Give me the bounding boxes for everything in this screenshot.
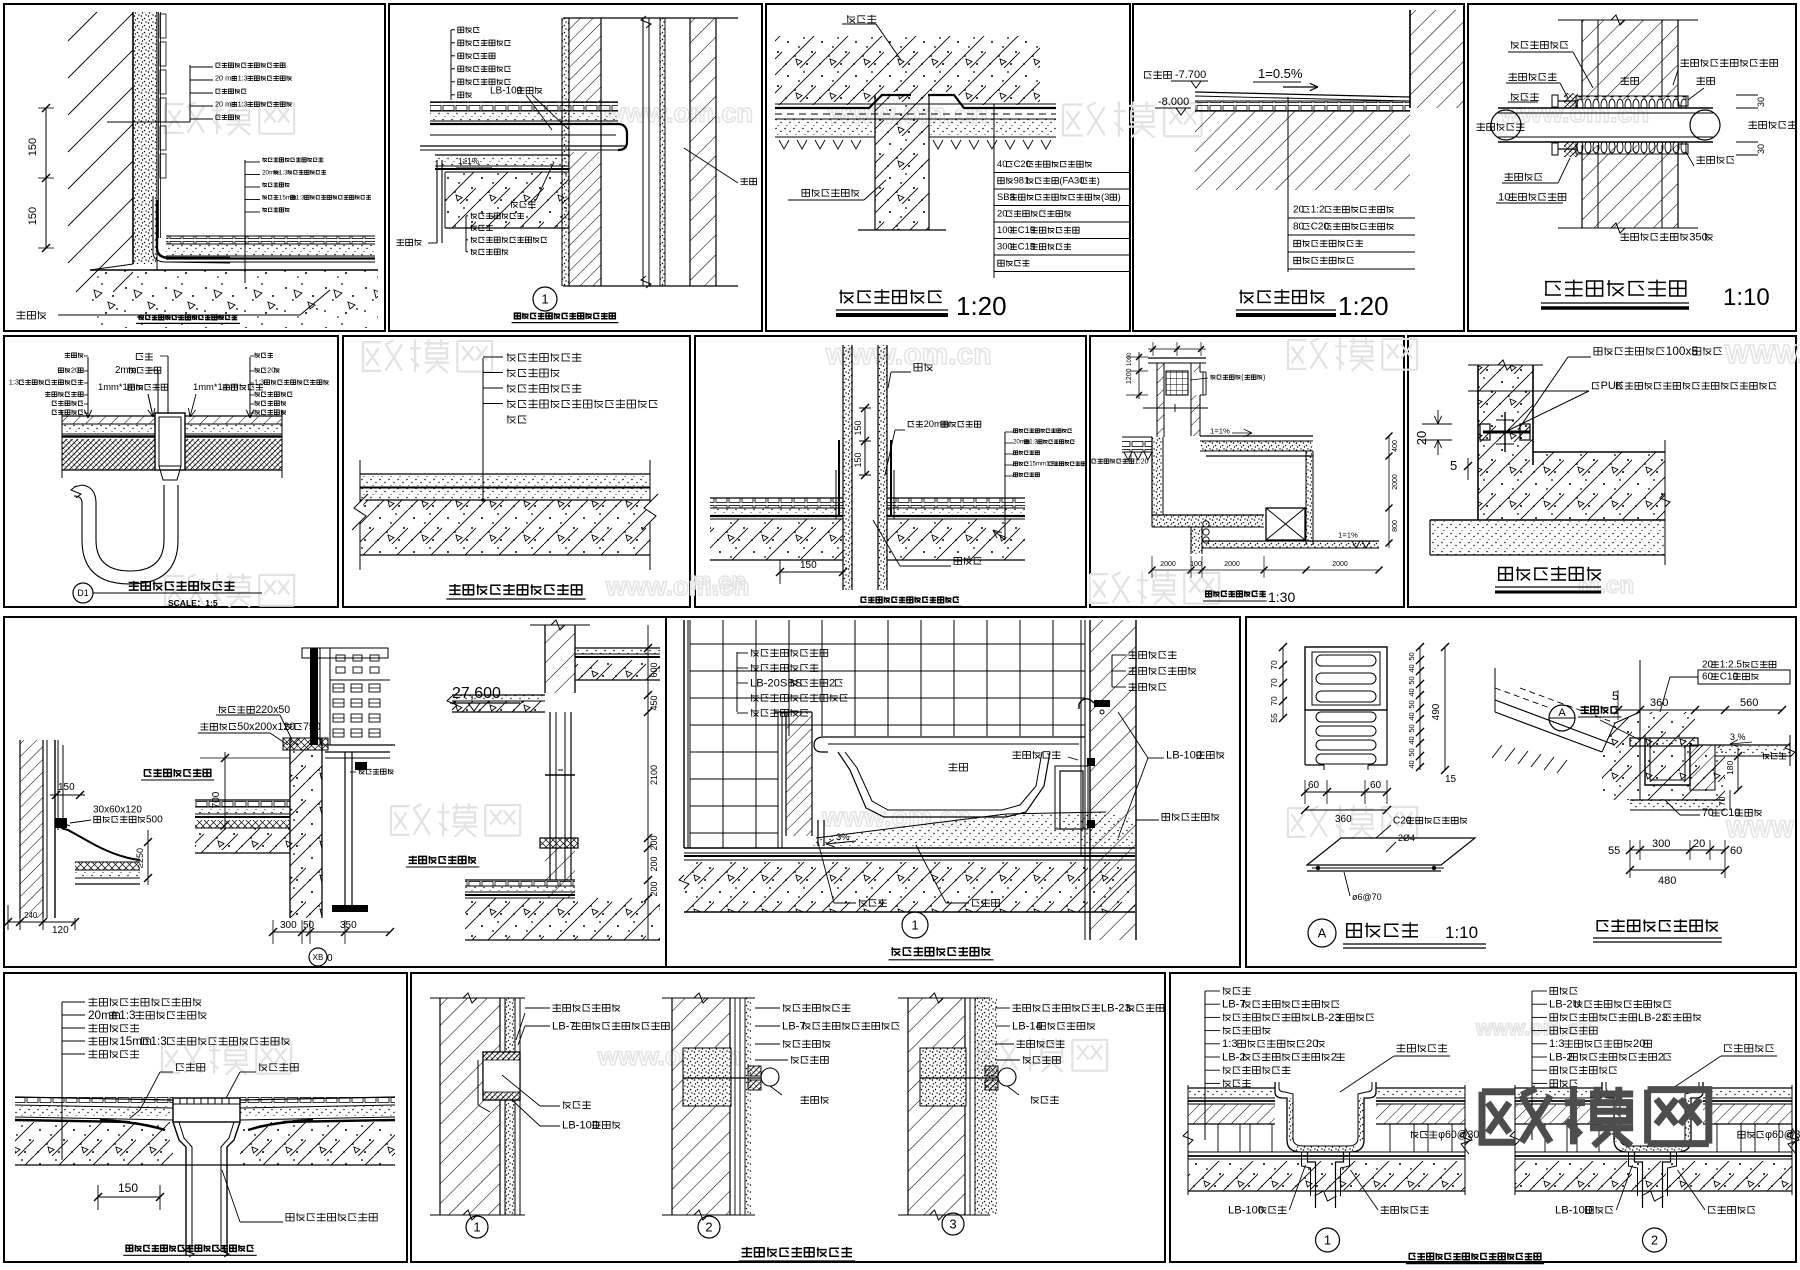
svg-text:D1: D1 xyxy=(77,588,89,598)
svg-text:800: 800 xyxy=(1392,520,1399,532)
svg-text:PUK: PUK xyxy=(1601,380,1624,392)
svg-text:1≥1%: 1≥1% xyxy=(458,156,480,166)
svg-text:0: 0 xyxy=(327,953,333,964)
svg-text:150: 150 xyxy=(58,782,75,793)
svg-text:1:3: 1:3 xyxy=(238,100,248,109)
svg-text:55: 55 xyxy=(1608,845,1620,857)
svg-text:3 %: 3 % xyxy=(1730,732,1746,742)
svg-text:20: 20 xyxy=(267,366,275,375)
svg-text:360: 360 xyxy=(1650,697,1668,709)
svg-text:20: 20 xyxy=(1414,431,1429,445)
svg-text:600: 600 xyxy=(649,662,659,677)
svg-text:60: 60 xyxy=(1308,780,1320,791)
svg-text:150: 150 xyxy=(118,1181,138,1195)
svg-text:1:3: 1:3 xyxy=(9,378,19,387)
svg-text:2100: 2100 xyxy=(649,765,659,785)
svg-text:-8.000: -8.000 xyxy=(1158,96,1189,108)
svg-text:1:3: 1:3 xyxy=(1029,439,1038,446)
svg-text:1: 1 xyxy=(1324,1233,1331,1248)
svg-text:(FA30: (FA30 xyxy=(1059,175,1084,186)
svg-text:1:3: 1:3 xyxy=(279,169,288,176)
svg-text:60: 60 xyxy=(1370,780,1382,791)
svg-text:φ60@300: φ60@300 xyxy=(1765,1129,1800,1141)
svg-text:100: 100 xyxy=(1190,561,1202,568)
svg-text:40: 40 xyxy=(1407,712,1416,720)
svg-text:1:3: 1:3 xyxy=(119,1008,136,1022)
svg-text:1=1%: 1=1% xyxy=(1338,531,1358,540)
svg-text:1000: 1000 xyxy=(1127,352,1133,366)
svg-text:50x200x120: 50x200x120 xyxy=(237,721,295,733)
svg-text:≥250: ≥250 xyxy=(135,848,145,868)
svg-text:LB-2: LB-2 xyxy=(1549,1051,1573,1063)
svg-text:2: 2 xyxy=(829,677,835,689)
svg-text:20mm: 20mm xyxy=(88,1008,121,1022)
svg-text:1:20: 1:20 xyxy=(1338,291,1389,321)
svg-text:LB-7: LB-7 xyxy=(1222,999,1246,1011)
svg-text:20: 20 xyxy=(1693,838,1705,850)
svg-text:www.om.cn: www.om.cn xyxy=(603,98,753,128)
svg-text:-7.700: -7.700 xyxy=(1175,69,1206,81)
svg-text:2: 2 xyxy=(705,1220,712,1235)
svg-text:2000: 2000 xyxy=(1224,561,1240,568)
svg-text:20: 20 xyxy=(997,208,1007,219)
svg-text:2: 2 xyxy=(1658,1051,1664,1063)
svg-text:300: 300 xyxy=(1652,838,1670,850)
svg-text:70: 70 xyxy=(1269,660,1279,670)
svg-text:): ) xyxy=(1118,191,1121,202)
svg-text:40: 40 xyxy=(1407,664,1416,672)
svg-text:50: 50 xyxy=(303,920,315,931)
svg-text:5: 5 xyxy=(1450,458,1457,473)
svg-text:981: 981 xyxy=(1014,175,1030,186)
svg-text:150: 150 xyxy=(853,452,863,467)
svg-text:40: 40 xyxy=(1407,760,1416,768)
svg-text:200: 200 xyxy=(649,835,659,850)
svg-text:1:3: 1:3 xyxy=(296,194,305,201)
svg-text:30: 30 xyxy=(1756,144,1766,154)
svg-text:1:10: 1:10 xyxy=(1723,284,1770,311)
svg-text:350: 350 xyxy=(340,920,357,931)
svg-text:1:10: 1:10 xyxy=(1445,923,1478,942)
svg-text:150: 150 xyxy=(27,138,39,156)
svg-text:WWW.: WWW. xyxy=(1725,339,1800,369)
svg-text:20: 20 xyxy=(1306,1038,1318,1050)
svg-text:1: 1 xyxy=(911,918,918,933)
svg-text:3%: 3% xyxy=(836,831,850,842)
svg-text:350: 350 xyxy=(1689,231,1708,243)
svg-text:3: 3 xyxy=(949,1217,956,1232)
svg-text:LB-23: LB-23 xyxy=(1101,1002,1131,1014)
svg-text:2000: 2000 xyxy=(1160,561,1176,568)
svg-text:m.cn: m.cn xyxy=(1578,572,1634,599)
svg-text:LB-7: LB-7 xyxy=(552,1020,576,1032)
svg-text:SCALE：1:5: SCALE：1:5 xyxy=(168,598,218,608)
svg-text:300: 300 xyxy=(280,920,297,931)
svg-text:15: 15 xyxy=(1445,774,1457,785)
svg-text:2: 2 xyxy=(1331,1051,1337,1063)
svg-text:φ60@300: φ60@300 xyxy=(1438,1129,1485,1141)
svg-text:A: A xyxy=(1558,707,1566,719)
svg-text:750: 750 xyxy=(303,721,321,733)
svg-text:40: 40 xyxy=(1407,688,1416,696)
svg-text:1=0.5%: 1=0.5% xyxy=(1258,66,1303,81)
svg-text:120: 120 xyxy=(52,925,69,936)
svg-text:ø6@70: ø6@70 xyxy=(1352,892,1382,902)
svg-text:m.cn: m.cn xyxy=(690,568,746,595)
svg-text:70: 70 xyxy=(1269,678,1279,688)
svg-text:50: 50 xyxy=(1407,748,1416,756)
svg-text:150: 150 xyxy=(800,560,817,571)
svg-text:2000: 2000 xyxy=(1332,561,1348,568)
svg-text:30x60x120: 30x60x120 xyxy=(93,805,142,816)
svg-text:200: 200 xyxy=(649,856,659,871)
svg-text:450: 450 xyxy=(649,695,659,710)
svg-text:30: 30 xyxy=(1756,97,1766,107)
svg-text:LB-7: LB-7 xyxy=(782,1020,806,1032)
svg-text:50: 50 xyxy=(1407,676,1416,684)
svg-text:490: 490 xyxy=(1431,703,1442,720)
svg-text:1:3: 1:3 xyxy=(1222,1038,1238,1050)
svg-text:55: 55 xyxy=(1269,713,1279,723)
svg-text:40: 40 xyxy=(997,158,1007,169)
svg-text:A: A xyxy=(1318,926,1327,941)
svg-text:1: 1 xyxy=(541,292,548,307)
svg-text:1:2: 1:2 xyxy=(1311,205,1325,216)
svg-text:2mm: 2mm xyxy=(115,365,137,376)
svg-text:): ) xyxy=(1097,175,1100,186)
svg-text:70: 70 xyxy=(1269,696,1279,706)
svg-text:1:30: 1:30 xyxy=(1268,589,1295,605)
svg-text:2: 2 xyxy=(1651,1233,1658,1248)
svg-text:1:3: 1:3 xyxy=(1549,1038,1565,1050)
svg-text:70: 70 xyxy=(1717,796,1727,806)
svg-text:): ) xyxy=(1263,373,1265,381)
svg-text:220x50: 220x50 xyxy=(255,704,290,716)
svg-text:150: 150 xyxy=(853,420,863,435)
svg-text:50: 50 xyxy=(1407,652,1416,660)
svg-text:50: 50 xyxy=(1407,724,1416,732)
svg-text:360: 360 xyxy=(1335,814,1352,825)
svg-text:1:20: 1:20 xyxy=(956,291,1007,321)
svg-text:(3: (3 xyxy=(1101,191,1109,202)
svg-text:1:3: 1:3 xyxy=(150,1034,167,1048)
svg-text:1:3: 1:3 xyxy=(238,74,248,83)
svg-text:400: 400 xyxy=(1392,440,1399,452)
svg-text:50: 50 xyxy=(1407,700,1416,708)
svg-text:LB-2: LB-2 xyxy=(1222,1051,1246,1063)
svg-text:240: 240 xyxy=(24,911,38,920)
svg-text:150: 150 xyxy=(27,207,39,225)
svg-text:1=1%: 1=1% xyxy=(1210,427,1230,436)
svg-text:C20: C20 xyxy=(1014,158,1031,169)
svg-text:500: 500 xyxy=(146,815,163,826)
svg-text:LB-23: LB-23 xyxy=(1638,1012,1668,1024)
svg-text:2Ø4: 2Ø4 xyxy=(1398,833,1415,843)
svg-text:200: 200 xyxy=(649,881,659,896)
svg-text:LB-100: LB-100 xyxy=(1228,1204,1264,1216)
svg-text:1:20: 1:20 xyxy=(1135,457,1149,465)
svg-text:2000: 2000 xyxy=(1392,474,1399,490)
svg-text:480: 480 xyxy=(1658,875,1676,887)
svg-text:WWW: WWW xyxy=(1726,816,1794,843)
svg-text:1: 1 xyxy=(473,1220,480,1235)
svg-text:180: 180 xyxy=(1725,761,1735,775)
svg-text:1:2.5: 1:2.5 xyxy=(1720,660,1743,671)
svg-text:XB: XB xyxy=(313,953,324,962)
svg-text:560: 560 xyxy=(1740,697,1758,709)
svg-text:LB-2U: LB-2U xyxy=(1549,999,1581,1011)
svg-text:40: 40 xyxy=(1407,736,1416,744)
svg-text:60: 60 xyxy=(1730,845,1742,857)
